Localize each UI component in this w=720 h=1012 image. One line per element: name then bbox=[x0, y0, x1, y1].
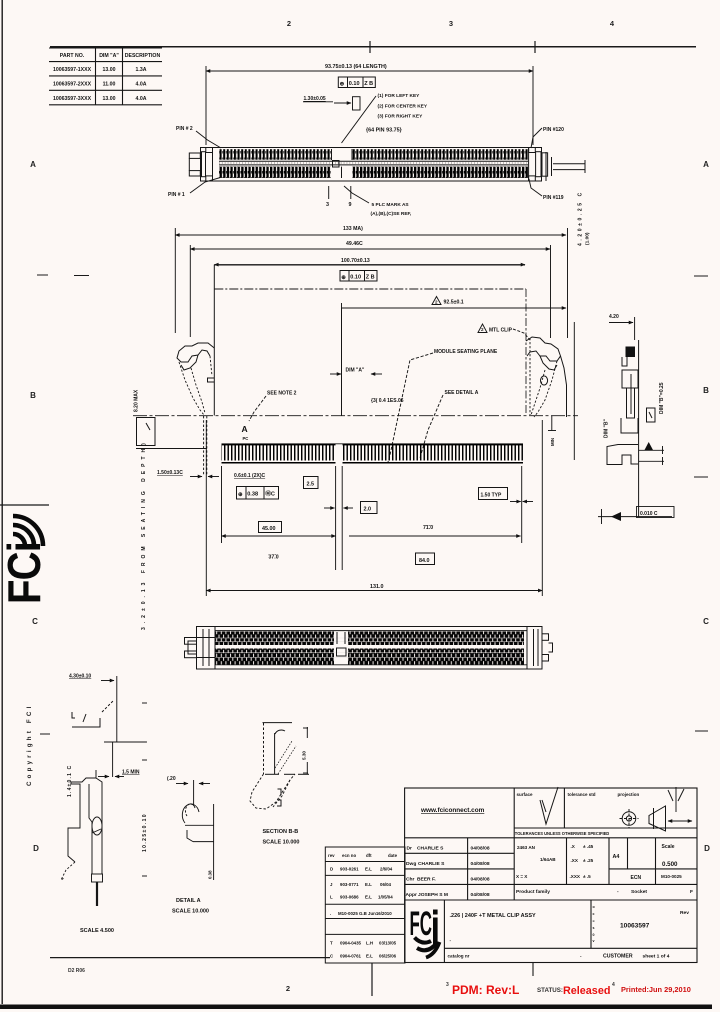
svg-text:{3( 0.4 1ES.06: {3( 0.4 1ES.06 bbox=[371, 398, 404, 404]
left latch hidden lines bbox=[179, 356, 212, 415]
boxed 2.0 key bbox=[361, 502, 378, 514]
svg-text:131.0: 131.0 bbox=[370, 584, 384, 590]
section pin comb left group bbox=[222, 444, 336, 464]
svg-text:.X: .X bbox=[571, 844, 576, 849]
svg-text:2/6/04: 2/6/04 bbox=[380, 867, 393, 872]
right latch solid profile bbox=[526, 337, 567, 417]
svg-text:4.20±0.25 C: 4.20±0.25 C bbox=[578, 190, 584, 246]
svg-text:1.3A: 1.3A bbox=[136, 67, 147, 73]
svg-text:04/08/08: 04/08/08 bbox=[471, 861, 490, 867]
top view body outline bbox=[201, 148, 542, 182]
section B-B small marks bbox=[277, 789, 281, 806]
svg-text:0904-0761: 0904-0761 bbox=[340, 954, 362, 959]
svg-text:o: o bbox=[593, 905, 596, 909]
left zone tick C/D bbox=[40, 733, 50, 735]
top view pin row 2 right bbox=[353, 167, 529, 178]
boxed 84.0 bbox=[416, 553, 435, 565]
svg-text:Chr: Chr bbox=[406, 877, 415, 883]
svg-text:13.00: 13.00 bbox=[103, 67, 116, 73]
bottom view right cap bbox=[527, 627, 553, 669]
bottom zone tick 2 bbox=[532, 963, 534, 976]
svg-text:B: B bbox=[703, 386, 709, 395]
svg-text:s: s bbox=[593, 926, 595, 930]
svg-text:ⓂC: ⓂC bbox=[265, 490, 275, 498]
svg-text:5 PLC MARK AS: 5 PLC MARK AS bbox=[372, 202, 410, 208]
svg-text:A: A bbox=[242, 424, 248, 434]
svg-text:(A),(B),(C)SE REF,: (A),(B),(C)SE REF, bbox=[371, 211, 412, 217]
small box right bbox=[647, 408, 656, 422]
svg-text:STATUS:: STATUS: bbox=[537, 987, 563, 994]
side view solder clip outline bbox=[607, 445, 638, 465]
third angle projection symbol bbox=[620, 806, 666, 831]
svg-text:49.46C: 49.46C bbox=[346, 241, 363, 247]
svg-text:CUSTOMER: CUSTOMER bbox=[603, 954, 633, 960]
svg-text:93.75±0.13 (64 LENGTH): 93.75±0.13 (64 LENGTH) bbox=[325, 64, 387, 70]
top view pin row 1 right bbox=[353, 149, 529, 160]
bottom zone tick below title block bbox=[371, 963, 373, 996]
svg-text:37.0: 37.0 bbox=[269, 555, 279, 561]
svg-text:C: C bbox=[32, 617, 38, 626]
svg-text:± .25: ± .25 bbox=[583, 858, 594, 863]
svg-text:0904-0435: 0904-0435 bbox=[340, 941, 362, 946]
svg-text:45.00: 45.00 bbox=[262, 526, 276, 532]
top view left cap details bbox=[202, 152, 206, 177]
sheet top border line bbox=[50, 46, 696, 48]
svg-text:(1) FOR LEFT KEY: (1) FOR LEFT KEY bbox=[378, 93, 421, 99]
svg-text:3: 3 bbox=[446, 982, 449, 988]
svg-text:D: D bbox=[704, 844, 710, 853]
parts table grid bbox=[49, 47, 162, 49]
section feature control frame bbox=[340, 271, 377, 282]
svg-text:PIN # 2: PIN # 2 bbox=[176, 126, 193, 132]
svg-text:10063597-2XXX: 10063597-2XXX bbox=[53, 82, 92, 88]
svg-text:04/08/08: 04/08/08 bbox=[471, 877, 490, 883]
svg-text:06/04: 06/04 bbox=[380, 882, 392, 887]
svg-text:0.10: 0.10 bbox=[349, 81, 360, 87]
svg-text:10063597: 10063597 bbox=[620, 923, 650, 930]
svg-text:903-0771: 903-0771 bbox=[340, 882, 359, 887]
svg-text:04/08/08: 04/08/08 bbox=[471, 892, 490, 898]
svg-text:8.20 MAX: 8.20 MAX bbox=[134, 389, 140, 412]
side view contact outline bbox=[621, 340, 639, 433]
svg-text:± .45: ± .45 bbox=[583, 844, 594, 849]
svg-text:DIM "B": DIM "B" bbox=[604, 418, 610, 438]
svg-text:DIM "A": DIM "A" bbox=[346, 368, 366, 374]
top view right extension lines bbox=[553, 163, 585, 165]
svg-text:10063597-3XXX: 10063597-3XXX bbox=[53, 96, 92, 102]
svg-text:A: A bbox=[703, 160, 709, 169]
svg-text:c: c bbox=[593, 912, 595, 916]
board edge line below left latch bbox=[136, 448, 207, 450]
svg-text:E.L: E.L bbox=[365, 895, 372, 900]
section B-B bottom lines bbox=[265, 773, 309, 775]
leader from key labels to key slot bbox=[342, 96, 377, 143]
bottom view band speckle overlay bbox=[216, 632, 335, 646]
detail1 right extension bracket bbox=[142, 703, 147, 876]
svg-text:JOSEPH S M: JOSEPH S M bbox=[418, 892, 448, 898]
svg-text:SEE DETAIL A: SEE DETAIL A bbox=[445, 390, 479, 396]
FCI logo left margin (rotated) bbox=[0, 516, 50, 604]
svg-text:2: 2 bbox=[481, 327, 484, 332]
dim 45.00 line bbox=[222, 535, 336, 537]
svg-text:.: . bbox=[330, 911, 331, 916]
bottom view band white separators bbox=[216, 638, 525, 658]
svg-text:TOLERANCES UNLESS OTHERWISE SP: TOLERANCES UNLESS OTHERWISE SPECIFIED bbox=[515, 831, 610, 836]
detail1 dim line mid bbox=[98, 742, 146, 777]
svg-text:Released: Released bbox=[563, 985, 610, 997]
svg-text:ecn no: ecn no bbox=[342, 853, 356, 858]
top zone tick 2 bbox=[534, 41, 536, 53]
svg-text:4.30±0.10: 4.30±0.10 bbox=[69, 674, 91, 680]
svg-text:E.L: E.L bbox=[366, 954, 373, 959]
svg-text:Dr: Dr bbox=[407, 846, 413, 852]
svg-text:FC: FC bbox=[410, 905, 433, 943]
module card phantom line bbox=[214, 288, 526, 290]
svg-text:0.500: 0.500 bbox=[662, 861, 678, 868]
detail1 contact main profile bbox=[68, 770, 103, 882]
svg-text:T: T bbox=[330, 941, 333, 946]
bottom view center key area bbox=[337, 632, 347, 656]
svg-text:.226 | 240F +T METAL CLIP: .226 | 240F +T METAL CLIP ASSY bbox=[450, 913, 536, 919]
right MIN note bbox=[548, 416, 556, 431]
revision table grid bbox=[325, 847, 405, 963]
svg-text:SCALE 4.500: SCALE 4.500 bbox=[80, 928, 114, 934]
svg-text:1.50 TYP: 1.50 TYP bbox=[481, 492, 503, 498]
svg-text:E.L: E.L bbox=[365, 882, 372, 887]
svg-text:(2) FOR CENTER KEY: (2) FOR CENTER KEY bbox=[378, 104, 428, 110]
label 5 PLCS MARK bbox=[371, 202, 412, 217]
side view bottom dim 0.10 bbox=[598, 509, 672, 524]
svg-text:(3) FOR RIGHT KEY: (3) FOR RIGHT KEY bbox=[378, 114, 424, 120]
surface finish checkmark symbol bbox=[540, 787, 558, 824]
overall dim 131.0 bbox=[206, 590, 542, 592]
bottom view left cap bbox=[185, 627, 216, 669]
svg-text:± .5: ± .5 bbox=[583, 874, 591, 879]
title block outer frame bbox=[405, 788, 697, 963]
left PCB section box bbox=[137, 418, 156, 446]
section dimension 92.5 with flag bbox=[342, 297, 567, 311]
svg-text:2: 2 bbox=[287, 19, 291, 28]
svg-text:CHARLIE S: CHARLIE S bbox=[417, 846, 444, 852]
svg-text:MTL CLIP: MTL CLIP bbox=[489, 328, 513, 334]
bottom scan edge band bbox=[0, 1005, 712, 1010]
svg-text:2: 2 bbox=[286, 984, 290, 993]
svg-text:10.25±0.10: 10.25±0.10 bbox=[142, 813, 148, 852]
side view stem line bbox=[638, 433, 640, 517]
bottom view pin band 2 left bbox=[216, 649, 335, 665]
key option labels bbox=[366, 93, 428, 134]
svg-text:catalog nr: catalog nr bbox=[448, 954, 470, 959]
top view left mounting tab bbox=[189, 153, 200, 158]
svg-text:Printed:Jun 29,2010: Printed:Jun 29,2010 bbox=[621, 985, 691, 994]
leader 5 PLCS bbox=[344, 186, 369, 203]
bottom view body outline bbox=[197, 627, 543, 670]
svg-text:3: 3 bbox=[326, 202, 329, 208]
left latch contact tails hidden bbox=[204, 416, 207, 476]
svg-text:D2 R06: D2 R06 bbox=[68, 968, 85, 974]
left zone divider B/C bbox=[0, 504, 49, 506]
svg-text:SCALE 10.000: SCALE 10.000 bbox=[172, 909, 209, 915]
svg-text:-: - bbox=[450, 938, 452, 943]
svg-text:Socket: Socket bbox=[631, 889, 647, 895]
svg-text:1.50±0.13C: 1.50±0.13C bbox=[157, 470, 183, 476]
svg-text:PIN #120: PIN #120 bbox=[543, 127, 564, 133]
svg-text:0.6±0.1 (2X)C: 0.6±0.1 (2X)C bbox=[234, 473, 265, 479]
module card right phantom edge bbox=[525, 289, 527, 415]
datum triangle solid bbox=[645, 442, 654, 450]
svg-text:11.00: 11.00 bbox=[103, 82, 116, 88]
detail A hook shape bbox=[182, 804, 214, 880]
svg-text:9: 9 bbox=[349, 202, 352, 208]
svg-text:MODULE SEATING PLANE: MODULE SEATING PLANE bbox=[434, 349, 498, 355]
svg-text:Scale: Scale bbox=[662, 844, 675, 850]
sheet left border line bbox=[1, 0, 3, 1004]
svg-text:1.30±0.05: 1.30±0.05 bbox=[304, 96, 326, 102]
svg-text:PC: PC bbox=[243, 436, 249, 441]
svg-text:DETAIL A: DETAIL A bbox=[176, 898, 201, 904]
top view right end clip bbox=[542, 153, 548, 176]
section view dimension 93.75 line 1 bbox=[175, 228, 567, 338]
svg-text:.XX: .XX bbox=[571, 858, 579, 863]
key digit extension lines bbox=[329, 186, 351, 199]
svg-text:10063597-1XXX: 10063597-1XXX bbox=[53, 67, 92, 73]
key position digits bbox=[326, 202, 352, 208]
svg-text:SCALE 10.000: SCALE 10.000 bbox=[263, 840, 300, 846]
svg-text:⊕: ⊕ bbox=[238, 492, 243, 498]
svg-text:133 MA): 133 MA) bbox=[343, 226, 363, 232]
units mark bbox=[668, 787, 684, 812]
top view pin row 2 left bbox=[219, 167, 331, 178]
right latch hidden lines bbox=[530, 338, 557, 417]
section B-B top line bbox=[263, 723, 293, 774]
svg-text:X = X: X = X bbox=[516, 874, 528, 879]
svg-text:v: v bbox=[593, 939, 595, 943]
svg-text:DIM "A": DIM "A" bbox=[99, 53, 119, 59]
svg-text:⊕: ⊕ bbox=[341, 275, 346, 281]
svg-text:13.00: 13.00 bbox=[103, 96, 116, 102]
section body left edge bbox=[213, 265, 215, 416]
svg-text:L.H: L.H bbox=[366, 941, 373, 946]
svg-text:F: F bbox=[690, 889, 693, 895]
svg-text:PIN # 1: PIN # 1 bbox=[168, 192, 185, 198]
svg-text:4: 4 bbox=[612, 982, 615, 988]
leader PIN #119 bbox=[529, 179, 542, 196]
svg-text:Copyright FCI: Copyright FCI bbox=[26, 703, 33, 786]
top zone tick 1 bbox=[369, 41, 371, 53]
svg-text:903-0686: 903-0686 bbox=[340, 895, 359, 900]
leader PIN #120 bbox=[531, 128, 542, 148]
svg-text:SECTION B-B: SECTION B-B bbox=[263, 829, 299, 835]
FCI logo title block bbox=[410, 905, 440, 958]
svg-text:Z B: Z B bbox=[366, 275, 375, 281]
svg-text:2: 2 bbox=[435, 299, 438, 304]
svg-text:3.2±0.13 FROM SEATING DEPTH: 3.2±0.13 FROM SEATING DEPTH) bbox=[141, 439, 147, 630]
svg-text:0.38: 0.38 bbox=[247, 492, 258, 498]
svg-text:surface: surface bbox=[517, 792, 534, 797]
section view dimension 100.70 line 3 bbox=[214, 264, 525, 266]
svg-text:04/08/08: 04/08/08 bbox=[471, 846, 490, 852]
svg-text:4.20: 4.20 bbox=[609, 314, 619, 320]
svg-text:rev: rev bbox=[328, 853, 335, 858]
svg-text:Appr: Appr bbox=[406, 892, 418, 898]
svg-text:1/64AB: 1/64AB bbox=[540, 857, 556, 862]
svg-text:{64 PIN 93.75}: {64 PIN 93.75} bbox=[366, 128, 403, 134]
svg-text:www.fciconnect.com: www.fciconnect.com bbox=[420, 807, 485, 814]
section body top edge bbox=[214, 264, 525, 266]
svg-text:.XXX: .XXX bbox=[570, 874, 581, 879]
svg-text:D: D bbox=[33, 844, 39, 853]
svg-text:dft: dft bbox=[366, 853, 372, 858]
svg-text:Product family: Product family bbox=[516, 889, 550, 895]
svg-text:PART NO.: PART NO. bbox=[60, 53, 85, 59]
left latch solid profile bbox=[177, 343, 214, 382]
seating plane dash-dot line bbox=[133, 415, 578, 417]
bottom view pin band 2 right bbox=[348, 649, 524, 665]
detail1 solder pin bbox=[96, 882, 98, 906]
leader MTL CLIP bbox=[513, 329, 530, 340]
svg-text:1.5 MIN: 1.5 MIN bbox=[122, 770, 140, 776]
svg-text:0.010 C: 0.010 C bbox=[640, 511, 658, 517]
label MTL CLIP with flag bbox=[478, 324, 487, 333]
svg-text:DESCRIPTION: DESCRIPTION bbox=[125, 53, 161, 59]
svg-text:BEER F.: BEER F. bbox=[417, 877, 436, 883]
leader PIN #2 bbox=[196, 131, 221, 148]
dimension 93.75 overall bbox=[206, 66, 533, 145]
right zone tick B/C bbox=[694, 476, 708, 478]
feature control frame top bbox=[338, 77, 375, 88]
svg-text:0.38: 0.38 bbox=[208, 870, 213, 879]
svg-text:03/13/05: 03/13/05 bbox=[379, 941, 397, 946]
sheet bottom border line bbox=[50, 957, 330, 959]
feature frame 0.38 bbox=[237, 487, 279, 500]
svg-text:(.20: (.20 bbox=[167, 776, 176, 782]
svg-text:projection: projection bbox=[618, 792, 640, 797]
left zone tick A/B bbox=[37, 274, 48, 276]
svg-text:71.0: 71.0 bbox=[423, 525, 433, 531]
side view hatched block bbox=[626, 347, 636, 358]
detail1 hidden curve bbox=[61, 862, 75, 880]
svg-text:4.0A: 4.0A bbox=[136, 82, 147, 88]
svg-text:J: J bbox=[330, 882, 333, 887]
leader module seating plane bbox=[388, 353, 433, 462]
bottom view inner rails bbox=[215, 631, 527, 665]
svg-text:0: 0 bbox=[593, 933, 595, 937]
svg-text:L: L bbox=[330, 895, 333, 900]
side view base lines bbox=[639, 446, 664, 465]
boxed 2.5 bbox=[304, 477, 319, 489]
section B-B hatch diagonals bbox=[275, 741, 296, 774]
dimension extension verticals bbox=[206, 420, 542, 596]
svg-text:tolerance std: tolerance std bbox=[568, 792, 596, 797]
svg-text:2.0: 2.0 bbox=[364, 507, 372, 513]
svg-text:MIN: MIN bbox=[550, 438, 555, 446]
right zone tick C/D bbox=[695, 730, 708, 732]
svg-text:PDM: Rev:L: PDM: Rev:L bbox=[452, 983, 519, 997]
svg-text:=: = bbox=[593, 919, 595, 923]
svg-text:1.4±0.1 C: 1.4±0.1 C bbox=[67, 765, 73, 797]
detail1 latch tip profile bbox=[72, 701, 113, 727]
svg-text:E.L: E.L bbox=[365, 867, 372, 872]
svg-text:903-0261: 903-0261 bbox=[340, 867, 359, 872]
section B-B right bracket + dim bbox=[303, 727, 308, 774]
right vertical extension x574 bbox=[573, 322, 575, 460]
svg-text:FCi: FCi bbox=[0, 542, 50, 604]
svg-text:PIN #119: PIN #119 bbox=[543, 195, 564, 201]
svg-text:C: C bbox=[703, 617, 709, 626]
section view dimension 49.46 line 2 bbox=[190, 245, 550, 338]
boxed 1.50 TYP bbox=[479, 488, 508, 500]
svg-text:4: 4 bbox=[610, 19, 615, 28]
svg-text:D: D bbox=[330, 867, 333, 872]
right zone tick A/B bbox=[694, 275, 708, 277]
svg-text:0.10: 0.10 bbox=[350, 275, 361, 281]
svg-text:1/05/04: 1/05/04 bbox=[378, 895, 393, 900]
svg-text:date: date bbox=[388, 853, 398, 858]
svg-text:sheet 1 of 4: sheet 1 of 4 bbox=[643, 954, 670, 960]
bottom view pin band 1 right bbox=[348, 632, 524, 646]
svg-text:-: - bbox=[580, 954, 582, 959]
top view key slot bbox=[332, 149, 353, 178]
section pin comb top line bbox=[222, 443, 524, 445]
svg-text:84.0: 84.0 bbox=[419, 558, 430, 564]
section key slot line bbox=[341, 308, 343, 416]
svg-text:Rev: Rev bbox=[680, 910, 689, 916]
svg-text:M10-0025 G.B Jun16/2010: M10-0025 G.B Jun16/2010 bbox=[338, 911, 392, 916]
tiny stacked chars near part number bbox=[593, 905, 596, 943]
stray scan dash bbox=[74, 275, 89, 277]
leader PIN #1 bbox=[190, 177, 222, 193]
svg-text:2.5: 2.5 bbox=[307, 482, 315, 488]
svg-text:4.0A: 4.0A bbox=[136, 96, 147, 102]
svg-text:ECN: ECN bbox=[631, 875, 642, 881]
bottom view pin band 1 left bbox=[216, 632, 335, 646]
svg-text:5.30: 5.30 bbox=[302, 751, 307, 760]
top view center rails bbox=[219, 161, 528, 165]
leader see detail bbox=[420, 395, 443, 458]
svg-text:(1.00): (1.00) bbox=[585, 232, 591, 245]
svg-text:CHARLIE S: CHARLIE S bbox=[418, 861, 445, 867]
svg-text:Dwg: Dwg bbox=[406, 861, 416, 867]
svg-text:M10-0025: M10-0025 bbox=[661, 874, 682, 879]
leader see note 2 bbox=[249, 396, 266, 421]
svg-text:06/25/06: 06/25/06 bbox=[379, 954, 397, 959]
top view pin row 1 left bbox=[219, 149, 331, 160]
svg-text:DIM "B"=0.25: DIM "B"=0.25 bbox=[659, 382, 665, 414]
svg-text:C: C bbox=[330, 954, 334, 959]
section pin comb right group bbox=[343, 444, 524, 464]
dim 71.0 line bbox=[349, 535, 521, 537]
svg-text:A: A bbox=[30, 160, 36, 169]
svg-text:A4: A4 bbox=[613, 854, 620, 860]
svg-text:100.70±0.13: 100.70±0.13 bbox=[341, 258, 370, 264]
svg-text:3: 3 bbox=[449, 19, 453, 28]
top view right cap details bbox=[529, 148, 536, 153]
section B-B lower loop hidden bbox=[250, 774, 295, 809]
svg-text:Z B: Z B bbox=[364, 81, 373, 87]
svg-text:⊕: ⊕ bbox=[340, 82, 345, 88]
svg-text:2463 AN: 2463 AN bbox=[517, 845, 536, 850]
svg-text:92.5±0.1: 92.5±0.1 bbox=[444, 300, 464, 306]
svg-text:B: B bbox=[30, 391, 36, 400]
svg-text:-: - bbox=[617, 890, 619, 895]
svg-text:SEE NOTE 2: SEE NOTE 2 bbox=[267, 391, 297, 397]
projection arrow bbox=[668, 820, 692, 822]
